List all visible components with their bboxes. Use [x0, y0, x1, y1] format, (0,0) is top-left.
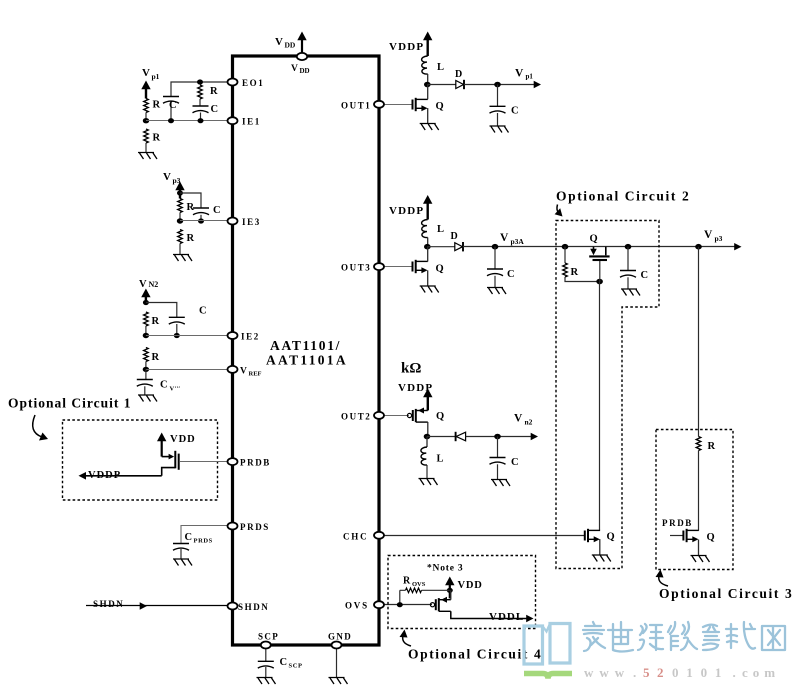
svg-text:Q: Q	[436, 101, 444, 112]
wire node to diode D2	[427, 436, 456, 438]
resistor R (OC2)	[563, 263, 579, 278]
node VDDP supply label (OUT2)	[398, 382, 433, 394]
svg-text:V: V	[142, 67, 150, 79]
node Rovs label	[403, 576, 426, 589]
wire coil to node	[427, 238, 429, 247]
node VDD supply label	[275, 36, 296, 50]
svg-text:IE3: IE3	[242, 217, 261, 227]
svg-text:Optional Circuit 4: Optional Circuit 4	[408, 647, 542, 662]
VDDP power arrow (OUT1)	[423, 32, 432, 57]
wire OVS line	[384, 604, 432, 606]
node top rail junction	[197, 79, 203, 84]
ground (Cvref)	[138, 395, 157, 402]
node Vn2 output label	[514, 413, 533, 427]
svg-text:N2: N2	[149, 280, 159, 289]
wire Cprds to ground	[180, 549, 182, 559]
svg-text:C: C	[211, 104, 219, 115]
wire source to ground	[599, 539, 601, 555]
pin OVS	[345, 601, 384, 611]
node VREF rail	[143, 367, 149, 372]
pin IE3	[228, 217, 261, 227]
Optional Circuit 3 dashed box	[656, 430, 733, 570]
svg-text:Optional Circuit 3: Optional Circuit 3	[659, 586, 793, 601]
svg-text:C: C	[199, 306, 207, 317]
capacitor C (Vp3 net)	[193, 205, 221, 216]
Optional Circuit 3 pointer arrow	[656, 570, 669, 587]
wire cap to ground	[494, 276, 496, 288]
VDD power arrow	[297, 32, 306, 54]
svg-text:IE1: IE1	[242, 117, 261, 127]
svg-text:R: R	[152, 352, 160, 363]
transistor Q (OC4 PMOS)	[430, 597, 450, 612]
svg-text:V: V	[139, 279, 147, 290]
wire OUT3 gate lead	[384, 266, 412, 268]
wire PRDB gate lead	[180, 461, 228, 463]
pin EO1	[228, 78, 265, 88]
VDD power arrow (OC4)	[445, 577, 454, 599]
pin SCP	[258, 632, 279, 649]
VDD power arrow (OC1)	[157, 433, 166, 457]
wire CHC line	[384, 535, 585, 537]
wire R to C (feedback branch)	[199, 99, 201, 106]
Optional Circuit 1 pointer arrow	[33, 415, 48, 441]
wire VREF node to cap	[145, 369, 147, 379]
capacitor C (OC2)	[620, 270, 648, 281]
svg-text:OUT2: OUT2	[341, 411, 371, 421]
capacitor C (feedback branch)	[193, 104, 219, 115]
ground (Vp3A cap)	[487, 288, 506, 295]
node OUT2 switch node	[424, 434, 431, 440]
svg-text:C: C	[511, 106, 519, 117]
VDDP power arrow (OUT3)	[423, 195, 432, 220]
watermark url text	[584, 665, 780, 680]
svg-text:V: V	[500, 232, 509, 244]
ground (Vp1 divider)	[138, 153, 157, 160]
svg-text:R: R	[187, 233, 195, 244]
svg-text:VDDP: VDDP	[389, 41, 424, 53]
pin GND	[328, 632, 352, 649]
svg-text:.: .	[733, 665, 736, 680]
node IE2 rail cap	[174, 333, 180, 338]
node OC2 gate junction	[596, 279, 603, 285]
node VDD label (OC4)	[458, 580, 483, 591]
node feedback bottom	[198, 118, 204, 123]
resistor R (EO1 feedback)	[198, 85, 218, 99]
svg-text:Optional Circuit 2: Optional Circuit 2	[556, 189, 690, 204]
transistor Q (OUT1 NMOS)	[413, 98, 444, 112]
svg-text:www: www	[584, 665, 630, 680]
VDDL output arrow	[526, 615, 533, 622]
svg-text:p1: p1	[526, 73, 534, 81]
resistor R (OC3)	[696, 437, 715, 453]
node VDDP label (OC1)	[88, 470, 121, 481]
capacitor Cvref	[137, 380, 181, 393]
ground (OC3 NMOS)	[691, 556, 710, 563]
watermark book icon	[524, 624, 570, 665]
svg-text:PRDS: PRDS	[194, 538, 213, 545]
svg-text:C: C	[213, 205, 221, 216]
svg-text:V: V	[163, 171, 171, 183]
transistor Q (OC2 pass PMOS, horizontal)	[589, 234, 609, 261]
resistor R (Vp1 lower)	[144, 129, 161, 144]
ground (Cscp)	[257, 678, 276, 685]
wire Vp3A rail to Vp3 arrow	[463, 246, 735, 248]
capacitor C (Vn2 output)	[490, 457, 519, 468]
svg-text:*Note 3: *Note 3	[427, 564, 463, 574]
wire diode to Vn2 output	[466, 436, 532, 438]
svg-text:R: R	[152, 316, 160, 327]
capacitor C (VN2 net)	[169, 306, 207, 325]
wire R to node	[145, 113, 147, 121]
svg-text:SCP: SCP	[289, 663, 303, 670]
wire Cscp to ground	[265, 667, 267, 678]
wire coil to node	[427, 74, 429, 85]
svg-text:PRDS: PRDS	[240, 522, 270, 532]
pin VREF	[228, 366, 262, 378]
wire Rovs left leg down to OVS line	[399, 590, 401, 604]
pin IE1	[228, 117, 261, 127]
svg-text:V: V	[514, 413, 523, 425]
capacitor C (Vp3A output)	[487, 269, 515, 280]
capacitor C (left, EO1 net)	[163, 97, 179, 112]
node VDD label (OC1)	[170, 434, 196, 445]
Optional Circuit 2 dashed box (L-shape)	[556, 221, 659, 569]
VN2 power arrow	[141, 289, 150, 303]
node IE2 rail left	[143, 333, 149, 338]
wire cap to ground	[497, 113, 499, 126]
svg-text:IE2: IE2	[241, 332, 260, 342]
svg-text:R: R	[708, 441, 716, 452]
node left cap bottom	[168, 118, 174, 123]
svg-text:L: L	[437, 454, 444, 465]
wire VREF rail	[146, 369, 228, 371]
svg-text:V: V	[240, 367, 247, 377]
ground (OC2 cap)	[621, 289, 640, 296]
ground (OUT3 Q)	[420, 286, 439, 293]
wire cap to ground	[627, 277, 629, 289]
Vp1 output arrow	[534, 81, 541, 88]
svg-text:AAT1101/: AAT1101/	[270, 338, 341, 353]
svg-text:V: V	[704, 229, 713, 241]
inductor L1	[422, 56, 444, 74]
svg-text:SHDN: SHDN	[238, 602, 269, 612]
wire cap C branch OUT3	[494, 247, 496, 269]
svg-text:DD: DD	[300, 67, 310, 75]
wire SHDN input	[86, 605, 228, 607]
capacitor Cscp	[258, 657, 303, 670]
IC body AAT1101/AAT1101A	[233, 56, 380, 645]
svg-text:Optional Circuit 1: Optional Circuit 1	[8, 396, 132, 411]
Optional Circuit 4 dashed box	[388, 556, 536, 629]
diode D2 (pointing left)	[456, 432, 466, 441]
svg-text:VDDP: VDDP	[389, 205, 424, 217]
wire Vp3 node to C top	[180, 193, 201, 208]
wire C bottom to rail	[200, 215, 202, 221]
node OC2 R junction	[562, 244, 569, 250]
svg-text:VDD: VDD	[458, 580, 483, 591]
wire drain to VDDL	[451, 611, 527, 618]
node OC2 cap junction	[625, 244, 632, 250]
wire VDDP out (OC1)	[85, 475, 162, 477]
node Vp1 output label	[515, 68, 533, 81]
wire R to node	[145, 326, 147, 336]
svg-text:R: R	[571, 267, 579, 278]
svg-text:kΩ: kΩ	[401, 361, 421, 377]
capacitor Cprds	[173, 532, 213, 550]
node Vp1 supply label	[142, 67, 160, 81]
wire GND pin to ground	[336, 649, 338, 678]
svg-text:VDDL: VDDL	[489, 611, 524, 623]
svg-text:Q: Q	[607, 532, 615, 543]
pin CHC	[343, 531, 384, 541]
svg-text:R: R	[153, 133, 161, 144]
wire R to NMOS drain	[698, 451, 700, 531]
svg-text:OUT3: OUT3	[341, 263, 371, 273]
svg-text:PRDB: PRDB	[662, 518, 693, 528]
node Vp3A cap junction	[492, 244, 499, 250]
wire C bottom to rail	[176, 324, 178, 336]
wire IE3 rail	[180, 220, 228, 222]
pin OUT1	[341, 100, 384, 110]
node VDDP supply label (OUT1)	[389, 41, 424, 53]
capacitor C (Vp1 output)	[490, 106, 519, 117]
node junction IE1 rail left	[143, 118, 149, 123]
svg-text:C: C	[511, 457, 519, 468]
VDDP left arrow (OC1)	[79, 472, 87, 480]
wire R to node	[179, 213, 181, 222]
watermark chinese glyphs	[583, 622, 785, 652]
svg-text:C: C	[185, 532, 193, 543]
wire C to node	[200, 113, 202, 121]
wire source up to VDD node	[450, 590, 452, 599]
wire coil to ground	[426, 465, 428, 479]
wire cap C branch OUT2	[497, 437, 499, 458]
svg-text:Q: Q	[707, 532, 715, 543]
inductor L2	[421, 447, 444, 465]
svg-text:52: 52	[643, 665, 671, 680]
transistor Q (OC1, mirrored NMOS)	[162, 451, 179, 476]
wire top rail EO1	[171, 82, 228, 121]
svg-text:SHDN: SHDN	[93, 599, 124, 609]
svg-text:SCP: SCP	[258, 632, 279, 642]
wire OUT1 gate lead	[384, 104, 412, 106]
svg-text:p3A: p3A	[511, 237, 525, 246]
Optional Circuit 2 pointer arrow	[555, 205, 563, 217]
wire Rovs to VDD node	[400, 589, 450, 591]
Optional Circuit 4 pointer arrow	[400, 630, 412, 647]
node OVS junction	[397, 602, 403, 607]
svg-text:REF: REF	[249, 370, 262, 377]
pin OUT2	[341, 411, 384, 421]
svg-text:VDDP: VDDP	[88, 470, 121, 481]
node Vp3 output label	[704, 229, 723, 243]
svg-text:EO1: EO1	[242, 78, 264, 88]
svg-text:p1: p1	[152, 72, 160, 81]
wire VN2 node to C top	[146, 303, 177, 318]
wire OC2 gate rail down to NMOS	[599, 282, 601, 531]
wire drain up to switch node	[427, 247, 429, 262]
wire drain up to switch node	[427, 85, 429, 100]
wire cap C branch OUT1	[497, 85, 499, 107]
svg-text:OVS: OVS	[412, 581, 426, 588]
svg-text:0101: 0101	[672, 665, 729, 680]
node VN2 top	[143, 300, 149, 305]
Optional Circuit 1 dashed box	[63, 420, 218, 500]
wire node to cap	[627, 247, 629, 271]
diode D3	[451, 231, 464, 251]
wire R2 to VREF node	[145, 362, 147, 370]
pin IE2	[228, 332, 260, 342]
wire drain down to node	[427, 422, 429, 437]
node Vp3 feed junction	[695, 244, 702, 250]
wire inductor L branch OUT2	[426, 437, 428, 448]
svg-text:Q: Q	[436, 264, 444, 275]
svg-text:C: C	[280, 657, 288, 668]
ground (Vp3 divider)	[173, 255, 192, 262]
svg-text:V: V	[515, 68, 524, 80]
wire PRDS to Cprds	[181, 526, 228, 544]
wire OC2 gate lead down	[599, 261, 601, 282]
inductor L3	[422, 220, 444, 238]
svg-text:OVS: OVS	[345, 601, 369, 611]
svg-text:AAT1101A: AAT1101A	[266, 353, 348, 368]
resistor Rovs (horizontal)	[406, 588, 422, 593]
transistor Q (OUT3 NMOS)	[413, 260, 444, 275]
wire node to R	[564, 247, 566, 263]
wire IE2 rail	[146, 335, 228, 337]
ground (OUT2 L)	[419, 479, 438, 486]
wire node to diode D1	[427, 84, 456, 86]
wire cap to ground	[144, 386, 146, 395]
svg-text:V ʹʹʹ: V ʹʹʹ	[170, 386, 181, 393]
svg-text:VDD: VDD	[170, 434, 196, 445]
svg-text:.: .	[633, 665, 636, 680]
svg-text:Q: Q	[590, 234, 598, 245]
pin PRDB	[228, 458, 271, 468]
node Vn2 cap junction	[494, 434, 501, 440]
Vp3 power arrow	[175, 182, 184, 199]
svg-text:R: R	[403, 576, 411, 587]
svg-text:C: C	[169, 100, 177, 111]
wire R2 to ground	[145, 143, 147, 153]
node Vp1 output cap junction	[494, 82, 501, 88]
resistor R (VN2 upper)	[144, 312, 160, 327]
svg-text:D: D	[455, 69, 462, 80]
wire OC3 gate lead	[670, 535, 684, 537]
wire source to ground	[427, 108, 429, 123]
transistor Q (OUT2 PMOS)	[407, 408, 444, 423]
pin PRDS	[228, 522, 270, 532]
node OUT3 switch node	[424, 244, 431, 250]
Vp1 power arrow	[141, 81, 150, 99]
node IE3 rail cap	[198, 218, 204, 223]
svg-text:n2: n2	[525, 418, 533, 427]
pin OUT3	[341, 263, 384, 273]
svg-text:C: C	[507, 269, 515, 280]
node Vp3 supply label	[163, 171, 181, 185]
svg-text:C: C	[160, 380, 168, 391]
pin SHDN	[228, 602, 270, 612]
resistor R (Vp1 upper)	[144, 99, 161, 113]
svg-text:com: com	[742, 665, 780, 680]
wire R2 to ground	[179, 244, 181, 255]
svg-text:p3: p3	[715, 234, 723, 243]
svg-text:L: L	[437, 62, 444, 73]
node Vp3 top	[177, 190, 183, 195]
ground (GND pin)	[329, 678, 348, 685]
ground (OUT1 Q)	[420, 124, 439, 131]
svg-text:V: V	[275, 36, 283, 48]
wire cap to ground	[497, 464, 499, 479]
svg-text:CHC: CHC	[343, 531, 368, 541]
Vn2 output arrow	[531, 433, 538, 440]
VDDP power arrow (OUT2)	[423, 389, 432, 411]
svg-text:D: D	[451, 231, 458, 242]
svg-text:GND: GND	[328, 632, 352, 642]
wire source to ground	[698, 540, 700, 556]
resistor R (Vp3 lower)	[178, 230, 195, 245]
node OUT1 switch node	[424, 82, 431, 88]
wire source to ground	[427, 270, 429, 286]
svg-text:Q: Q	[436, 411, 444, 422]
ground (Vn2 cap)	[491, 480, 510, 487]
node Vp3A output label	[500, 232, 524, 246]
ground (Cprds)	[173, 559, 192, 566]
wire node to diode D3	[427, 246, 455, 248]
node VN2 supply label	[139, 279, 158, 290]
SHDN mid arrow	[140, 602, 147, 609]
resistor R (Vp3 upper)	[178, 199, 195, 214]
wire Vp3 down to OC3	[698, 247, 700, 437]
transistor Q (OC3 NMOS)	[683, 529, 714, 543]
svg-text:V: V	[291, 64, 298, 74]
svg-text:C: C	[641, 270, 649, 281]
svg-text:L: L	[437, 224, 444, 235]
Vp3 output arrow	[734, 243, 741, 250]
watermark book underline	[524, 674, 572, 679]
node IE3 rail left	[177, 218, 183, 223]
pin VDD (top)	[291, 53, 310, 75]
ground (OC2 NMOS)	[592, 555, 611, 562]
wire IE1 rail	[146, 120, 228, 122]
diode D1	[455, 69, 464, 89]
svg-text:R: R	[153, 100, 161, 111]
resistor R (VN2 lower)	[144, 348, 160, 364]
svg-text:PRDB: PRDB	[240, 458, 271, 468]
svg-text:OUT1: OUT1	[341, 100, 371, 110]
transistor Q (OC2 NMOS)	[585, 529, 615, 543]
wire diode to Vp1 output	[464, 84, 535, 86]
svg-text:R: R	[210, 86, 218, 97]
wire OUT2 gate lead	[384, 415, 409, 417]
wire SCP to Cscp	[265, 649, 267, 661]
node OC4 VDD junction	[447, 588, 453, 593]
node VDDP supply label (OUT3)	[389, 205, 424, 217]
wire R bottom to gate node	[565, 277, 600, 282]
svg-text:DD: DD	[285, 41, 296, 50]
ground (Vp1 cap)	[490, 126, 509, 133]
